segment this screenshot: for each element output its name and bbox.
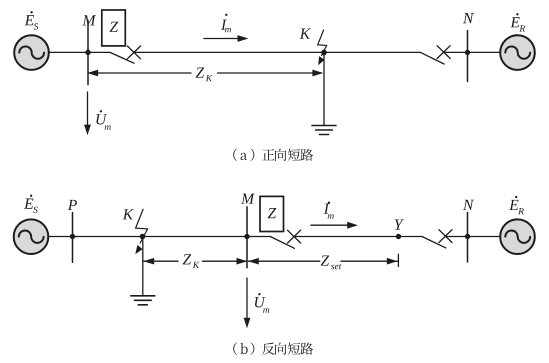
- dimension ZK (b): [143, 258, 247, 265]
- node M (b): [244, 234, 249, 239]
- wire breaker to N (b): [445, 236, 467, 238]
- node K (a): [321, 50, 327, 56]
- voltage arrow Um (b): [244, 278, 251, 328]
- relay box Z (a): [102, 10, 126, 46]
- label ZK (a): [196, 67, 213, 81]
- node N (a): [465, 50, 470, 55]
- label M (b): [241, 194, 255, 204]
- label ER (a): [510, 13, 525, 31]
- breaker QF2 (b): blade, X: [399, 236, 423, 238]
- dimension ZK (a): [87, 70, 323, 77]
- label P (b): [68, 200, 77, 210]
- wire K to M (b): [143, 236, 248, 238]
- caption (b) 反向短路: [233, 342, 313, 355]
- node M (a): [85, 50, 90, 55]
- caption (a) 正向短路: [233, 149, 313, 162]
- node Y (b): [396, 234, 401, 239]
- fault lightning bolt (b): [135, 209, 147, 254]
- wire ES to K (b): [48, 236, 142, 238]
- label ER (b): [509, 196, 524, 214]
- relay box Z (b): [260, 196, 284, 231]
- node P (b): [70, 234, 75, 239]
- label K (a): [300, 29, 311, 39]
- current arrow Im (b): [311, 222, 358, 229]
- wire N to ER (a): [468, 51, 501, 53]
- node N (b): [465, 234, 470, 239]
- source ER (b): [500, 219, 535, 254]
- label M (a): [82, 15, 96, 25]
- source ES (b): [14, 219, 49, 254]
- breaker QF2 (a): blade, X: [421, 52, 445, 64]
- voltage arrow Um (a): [84, 92, 91, 135]
- wire ES to bus M (a): [49, 51, 88, 53]
- source ES (a): [14, 35, 49, 70]
- label K (b): [123, 209, 134, 219]
- wire breaker to Y (b): [294, 236, 399, 238]
- source ER (a): [500, 35, 535, 70]
- ground lead (a): [323, 52, 325, 125]
- wire K to breaker (a): [324, 51, 421, 53]
- label Um (b): [255, 293, 269, 313]
- fault lightning bolt (a): [318, 30, 327, 65]
- bus M (b): [246, 207, 248, 268]
- ground symbol (b): [131, 296, 155, 305]
- node K (b): [140, 234, 146, 240]
- label Zset (b): [321, 255, 342, 269]
- label N (b): [463, 200, 474, 210]
- breaker QF1 (a): stub, blade, X: [88, 51, 110, 53]
- ground lead (b): [142, 237, 144, 296]
- wire N to ER (b): [468, 236, 501, 238]
- wire M-breaker to K (a): [134, 51, 324, 53]
- label Im (a): [221, 14, 231, 33]
- current arrow Im (a): [204, 35, 248, 42]
- bus N (a): [467, 31, 469, 82]
- label N (a): [463, 13, 474, 23]
- bus M (a): [87, 21, 89, 85]
- label Y (b): [395, 220, 404, 230]
- bus P (b): [72, 213, 74, 263]
- label Im (b): [324, 201, 334, 218]
- wire breaker to N (a): [444, 51, 468, 53]
- label ES (a): [25, 11, 39, 30]
- ground symbol (a): [312, 126, 336, 135]
- label Um (a): [96, 110, 110, 130]
- breaker QF1 (b): stub, blade, X: [247, 236, 270, 238]
- dimension Zset (b): [248, 254, 398, 266]
- label ES (b): [24, 195, 38, 214]
- label ZK (b): [183, 254, 200, 268]
- bus N (b): [467, 213, 469, 263]
